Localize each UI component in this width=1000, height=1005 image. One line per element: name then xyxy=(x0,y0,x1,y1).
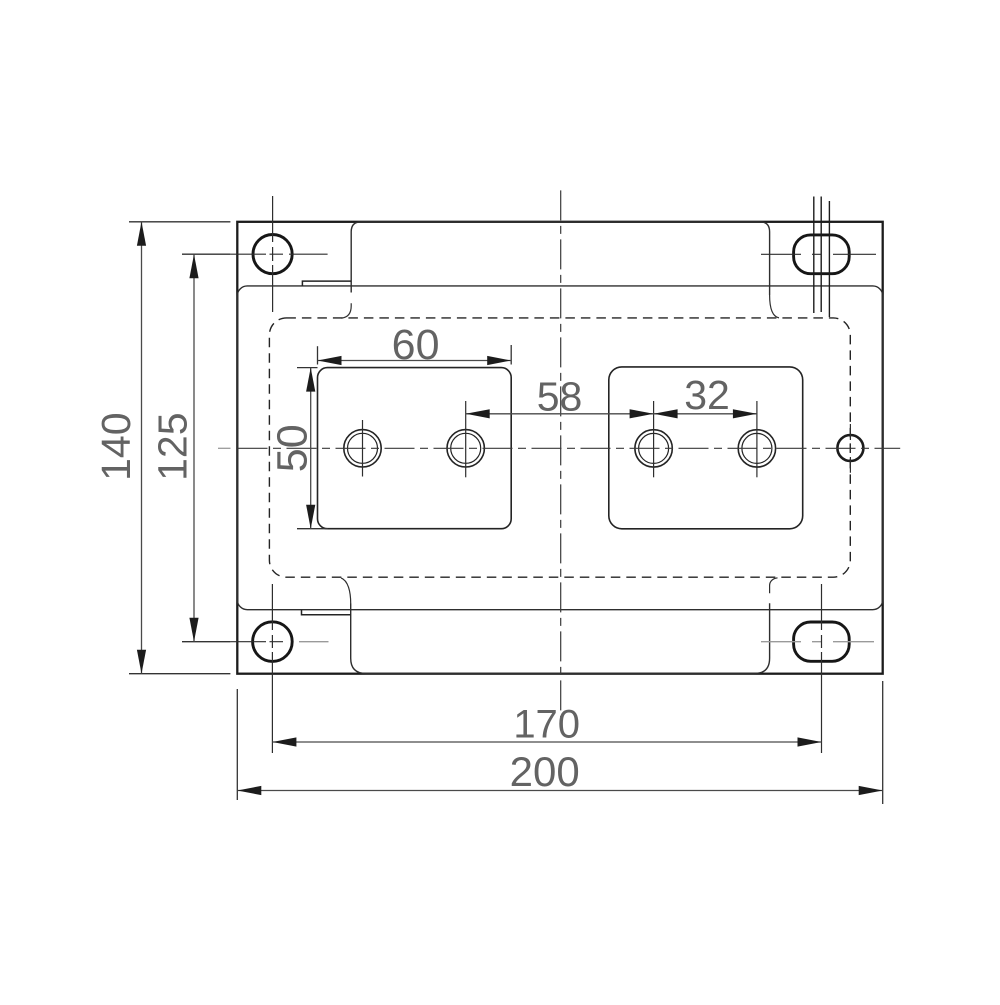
terminal hole D inner xyxy=(742,433,772,463)
terminal hole C outer xyxy=(635,430,672,467)
bottom tab left flare xyxy=(341,578,351,604)
dimension 58 arrow left xyxy=(466,409,490,418)
svg-text:125: 125 xyxy=(150,412,196,480)
dimension 50 arrow down xyxy=(306,505,315,529)
centerline cross bottom-right slot vertical xyxy=(821,584,823,753)
svg-text:58: 58 xyxy=(537,374,583,420)
main horizontal centerline gray stub xyxy=(218,447,231,449)
dimension 125 arrow down xyxy=(189,618,198,642)
centerline cross top-left hole vertical xyxy=(272,196,274,312)
dashed interior outline xyxy=(269,318,850,577)
mounting hole bottom-left xyxy=(253,622,293,662)
dimension 200 extension right xyxy=(882,681,884,804)
centerline cross top-right slot horizontal xyxy=(761,253,876,255)
main vertical centerline xyxy=(560,190,562,717)
terminal B centerline vertical xyxy=(465,401,467,477)
outer mounting plate outline xyxy=(237,222,882,674)
dimension 140 arrow down xyxy=(137,650,146,674)
svg-text:200: 200 xyxy=(510,748,580,795)
pilot hole right xyxy=(837,435,863,461)
dimension 125 extension bottom xyxy=(182,641,230,643)
centerline cross bottom-left hole horizontal dark part xyxy=(230,641,283,643)
dimension 50 line xyxy=(310,368,312,529)
dimension 125 arrow up xyxy=(189,254,198,278)
top-left notch xyxy=(302,281,351,286)
dimension 50 extension top xyxy=(297,367,318,369)
dimension 50 extension bottom xyxy=(297,528,328,530)
bottom tab right flare xyxy=(770,578,778,593)
terminal hole A outer xyxy=(344,430,381,467)
terminal hole D outer xyxy=(738,430,775,467)
terminal D centerline vertical xyxy=(756,401,758,477)
dimension 140 line xyxy=(141,222,143,674)
centerline cross bottom-right slot horizontal gray xyxy=(761,641,874,643)
top cover tab outline xyxy=(351,222,769,295)
dimension 60 arrow left xyxy=(318,356,342,365)
dimension 140 arrow up xyxy=(137,222,146,246)
dimension 60 extension right xyxy=(510,345,512,365)
svg-text:170: 170 xyxy=(513,703,580,747)
terminal C centerline vertical xyxy=(653,401,655,477)
mounting slot top-right xyxy=(794,235,850,274)
top tab left flare xyxy=(342,303,352,318)
terminal hole C inner xyxy=(639,433,669,463)
dimension 60 extension left xyxy=(317,346,319,364)
svg-text:140: 140 xyxy=(93,412,139,480)
dimension 200 extension left xyxy=(236,689,238,800)
dimension 50 arrow up xyxy=(306,368,315,392)
svg-text:60: 60 xyxy=(392,321,440,369)
main horizontal centerline xyxy=(238,447,901,449)
cable line 3 xyxy=(828,201,830,317)
terminal hole B outer xyxy=(447,430,484,467)
bottom cover tab outline xyxy=(351,603,770,673)
dimension 32 arrow right xyxy=(733,409,757,418)
terminal hole A inner xyxy=(348,433,378,463)
top tab right flare xyxy=(770,295,779,318)
dimension 200 arrow left xyxy=(237,786,261,795)
centerline cross bottom-left hole vertical xyxy=(271,584,273,753)
dimension 170 arrow left xyxy=(272,737,296,746)
centerline cross pilot hole vertical xyxy=(849,424,851,473)
terminal block left xyxy=(318,368,512,529)
dimension 125 line xyxy=(193,254,195,642)
centerline cross bottom-left hole gray part xyxy=(299,641,329,643)
dimension 200 line xyxy=(237,790,882,792)
dimension 60 line xyxy=(318,360,512,362)
dimension 32 arrow left xyxy=(654,409,678,418)
terminal block right xyxy=(609,367,803,529)
dimension 140 extension bottom xyxy=(129,673,230,675)
dimension 170 arrow right xyxy=(798,737,822,746)
centerline cross top-left hole horizontal xyxy=(230,253,327,255)
terminal hole B inner xyxy=(451,433,481,463)
dimension 58 arrow right xyxy=(630,409,654,418)
dimension 125 extension top xyxy=(182,253,230,255)
dimension 32 line xyxy=(654,413,757,415)
cable line 2 xyxy=(820,197,822,313)
bottom notch xyxy=(302,610,351,615)
base body rounded outline xyxy=(237,286,882,610)
dimension 60 arrow right xyxy=(487,356,511,365)
cable line 1 xyxy=(813,197,815,314)
mounting slot bottom-right xyxy=(794,622,850,661)
dimension 140 extension top xyxy=(129,221,230,223)
dimension 170 line xyxy=(272,741,821,743)
svg-text:50: 50 xyxy=(269,424,317,472)
mounting hole top-left xyxy=(253,235,292,274)
dimension 58 line xyxy=(466,413,654,415)
svg-text:32: 32 xyxy=(684,372,730,418)
dimension 200 arrow right xyxy=(859,786,883,795)
terminal A centerline vertical xyxy=(362,420,364,477)
